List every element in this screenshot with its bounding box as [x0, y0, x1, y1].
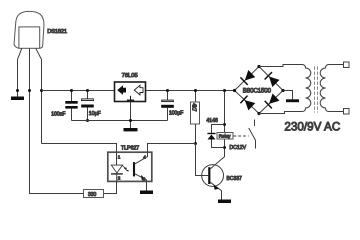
node: VDD junction — [40, 89, 43, 92]
wire + winding left (9V secondary) — [259, 65, 311, 114]
svg-text:1: 1 — [118, 155, 121, 160]
ground (BC337 emitter) — [218, 200, 231, 204]
node: bridge top (AC) — [257, 65, 260, 68]
node: 4k7 bottom junction — [194, 142, 197, 145]
node: 12V rail tap — [223, 89, 226, 92]
svg-text:2: 2 — [118, 176, 121, 181]
wire: +5V rail — [42, 90, 235, 92]
node: bridge left (+) — [233, 89, 236, 92]
svg-text:DS1821: DS1821 — [47, 29, 67, 35]
resistor 330 — [84, 190, 104, 198]
ground (opto emitter) — [140, 191, 153, 195]
node: 10uF bottom — [86, 119, 89, 122]
wire: DS1821 left lead (GND) — [18, 48, 22, 96]
diode top-right — [269, 77, 280, 88]
ground (DS1821) — [11, 97, 24, 101]
diode bottom-left — [245, 100, 256, 110]
svg-text:3: 3 — [143, 177, 146, 182]
svg-text:DC12V: DC12V — [229, 145, 246, 151]
node: bridge bottom (AC) — [257, 112, 260, 115]
wire: opto pin2 down to 330 — [104, 182, 117, 194]
svg-text:Relay: Relay — [219, 134, 231, 139]
node: gnd pin junction — [129, 119, 132, 122]
diode top-left — [245, 70, 256, 81]
node: 10uF top — [86, 89, 89, 92]
transistor Q1 BC337 — [202, 148, 225, 200]
svg-text:230/9V AC: 230/9V AC — [284, 120, 340, 133]
terminal bottom — [344, 109, 350, 115]
wire: dashed relay link — [234, 135, 249, 137]
svg-text:330: 330 — [88, 192, 97, 198]
transformer TR1 — [259, 62, 349, 114]
svg-text:100nF: 100nF — [51, 111, 65, 117]
node: relay top junction — [223, 123, 226, 126]
voltage regulator 78L05 — [115, 82, 146, 102]
wire: +12V line down to relay — [224, 91, 226, 148]
wire: 78L05 gnd pin — [130, 102, 132, 128]
terminal top — [344, 62, 350, 68]
relay contact — [249, 120, 256, 149]
wire: DS1821 middle lead (DQ) down to 330 resistor — [30, 48, 84, 193]
wire: DS1821 right lead (VDD) — [36, 48, 42, 143]
capacitor 100nF — [65, 91, 77, 121]
node: 100nF top — [70, 89, 73, 92]
node: 100uF top — [166, 89, 169, 92]
svg-text:B80C1500: B80C1500 — [243, 88, 272, 95]
svg-text:78L05: 78L05 — [122, 73, 138, 79]
capacitor 10uF (electrolytic) — [81, 91, 94, 121]
wire: ground bus — [72, 120, 168, 122]
ground (bridge) — [286, 99, 299, 102]
core — [315, 67, 318, 113]
node: left lead junction — [16, 89, 19, 92]
temperature sensor DS1821 (TO-92 package) — [14, 11, 44, 48]
diode bottom-right — [269, 94, 280, 104]
relay coil K1 — [217, 133, 233, 140]
bridge rectifier B80C1500 — [235, 67, 284, 114]
resistor 4k7 — [190, 91, 199, 144]
wire: junction to BC337 base — [196, 144, 209, 176]
node: bridge right (-) — [281, 89, 284, 92]
wire: opto pin3 to ground — [146, 182, 148, 191]
wire: bridge minus to ground — [283, 91, 293, 100]
node: middle lead junction — [28, 89, 31, 92]
wire: junction to opto pin4 — [148, 144, 196, 153]
wire: opto pin1 feed — [42, 144, 117, 153]
svg-text:4148: 4148 — [206, 118, 218, 124]
svg-text:4k7: 4k7 — [190, 103, 196, 111]
winding right (mains side) — [320, 65, 343, 112]
svg-text:TLP627: TLP627 — [121, 146, 139, 152]
svg-text:BC337: BC337 — [227, 176, 243, 182]
ground (78L05) — [124, 128, 138, 131]
svg-text:4: 4 — [143, 155, 146, 160]
diode D1 1N4148 (flyback) — [207, 125, 224, 148]
optocoupler U1 TLP627 — [108, 152, 152, 182]
node: relay bottom junction — [223, 146, 226, 149]
svg-text:100µF: 100µF — [169, 111, 183, 117]
node: 4k7 top — [194, 89, 197, 92]
capacitor 100uF (electrolytic) — [161, 91, 174, 121]
svg-text:10µF: 10µF — [89, 111, 101, 117]
